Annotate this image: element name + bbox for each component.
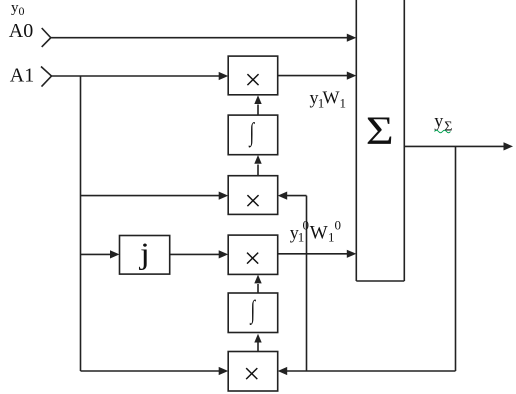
svg-text:0: 0 bbox=[19, 4, 25, 18]
svg-text:1: 1 bbox=[340, 95, 347, 110]
svg-text:∫: ∫ bbox=[249, 294, 257, 325]
svg-text:×: × bbox=[244, 242, 261, 275]
svg-text:0: 0 bbox=[335, 218, 342, 233]
svg-text:A0: A0 bbox=[9, 20, 33, 42]
svg-text:×: × bbox=[243, 358, 260, 391]
svg-text:A1: A1 bbox=[10, 65, 34, 87]
svg-text:W: W bbox=[310, 223, 328, 244]
svg-text:y: y bbox=[434, 110, 443, 130]
svg-text:j: j bbox=[139, 236, 150, 270]
svg-text:Σ: Σ bbox=[366, 109, 394, 153]
svg-text:0: 0 bbox=[303, 218, 310, 233]
svg-text:∫: ∫ bbox=[248, 117, 256, 148]
svg-text:×: × bbox=[244, 184, 261, 217]
svg-text:×: × bbox=[245, 64, 262, 97]
svg-text:W: W bbox=[323, 88, 340, 108]
